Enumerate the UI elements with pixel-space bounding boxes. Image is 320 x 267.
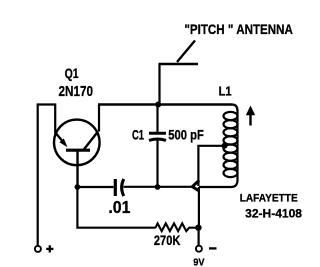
terminal battery minus [196, 246, 202, 252]
svg-text:2N170: 2N170 [59, 83, 94, 100]
wire bottom rail left [77, 186, 113, 188]
svg-text:C1: C1 [132, 126, 144, 142]
wire base lead [76, 151, 78, 188]
inductor L1 [199, 105, 238, 188]
wire base junction down to resistor [77, 187, 155, 228]
capacitor .01 [115, 179, 124, 196]
svg-text:270K: 270K [154, 233, 181, 248]
node coil bottom junction [192, 180, 199, 191]
wire to battery minus [198, 228, 200, 246]
wire top rail [98, 103, 232, 105]
node top junction [155, 102, 161, 108]
transistor Q1 [54, 120, 100, 166]
label minus [209, 247, 217, 249]
node base junction [75, 184, 81, 190]
wire antenna feed [158, 64, 160, 105]
wire coil tap [198, 146, 225, 186]
wire bottom rail right [124, 186, 194, 188]
svg-text:32-H-4108: 32-H-4108 [245, 208, 302, 220]
svg-text:L1: L1 [219, 83, 232, 98]
antenna (pitch antenna) [159, 41, 199, 65]
node resistor battery junction [195, 225, 201, 231]
svg-text:Q1: Q1 [65, 65, 79, 81]
wire junction to resistor node [198, 187, 200, 228]
svg-text:LAFAYETTE: LAFAYETTE [240, 193, 298, 205]
svg-text:.01: .01 [108, 197, 130, 217]
wire collector lead [98, 105, 100, 132]
arrow adjustment [246, 106, 255, 126]
capacitor C1 [149, 105, 166, 188]
terminal battery plus [35, 246, 41, 252]
node coil tap [222, 143, 228, 149]
svg-text:500 pF: 500 pF [168, 127, 204, 143]
resistor 270K [156, 223, 199, 231]
svg-text:"PITCH " ANTENNA: "PITCH " ANTENNA [184, 21, 293, 37]
wire emitter top / plus rail [38, 105, 56, 247]
node C1 bottom junction [155, 184, 161, 190]
svg-text:9V: 9V [193, 257, 204, 267]
label plus [46, 245, 53, 252]
